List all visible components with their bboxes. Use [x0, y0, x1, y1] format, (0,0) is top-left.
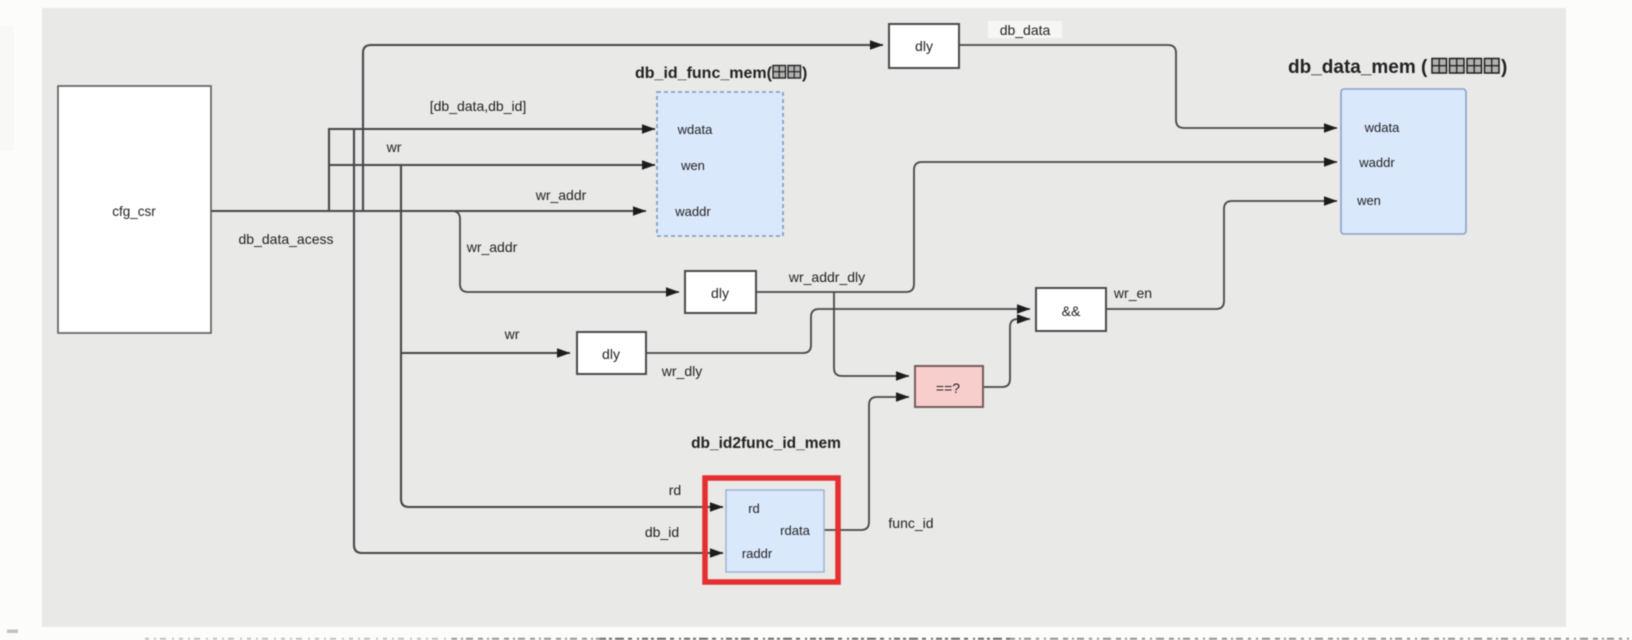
svg-text:db_data: db_data: [1000, 22, 1051, 38]
svg-text:cfg_csr: cfg_csr: [112, 204, 156, 219]
svg-text:wdata: wdata: [677, 122, 713, 137]
svg-text:): ): [1501, 57, 1507, 78]
svg-text:dly: dly: [711, 285, 729, 301]
svg-text:): ): [802, 65, 807, 82]
svg-text:wr_en: wr_en: [1113, 285, 1152, 301]
svg-text:db_data_mem (: db_data_mem (: [1288, 57, 1428, 78]
svg-text:func_id: func_id: [888, 515, 933, 531]
svg-text:dly: dly: [915, 38, 933, 54]
svg-text:&&: &&: [1062, 303, 1081, 319]
svg-text:waddr: waddr: [1358, 155, 1395, 170]
svg-text:rd: rd: [669, 482, 681, 498]
svg-text:db_id_func_mem(: db_id_func_mem(: [635, 65, 773, 82]
svg-text:wdata: wdata: [1364, 120, 1400, 135]
svg-text:wr_addr: wr_addr: [466, 239, 518, 255]
svg-text:raddr: raddr: [742, 546, 773, 561]
svg-text:dly: dly: [602, 346, 620, 362]
svg-text:==?: ==?: [936, 380, 960, 396]
svg-text:wen: wen: [1356, 193, 1381, 208]
svg-text:db_id2func_id_mem: db_id2func_id_mem: [691, 435, 841, 452]
svg-text:waddr: waddr: [674, 204, 711, 219]
svg-text:wr: wr: [504, 326, 520, 342]
svg-text:rd: rd: [748, 501, 760, 516]
svg-text:wen: wen: [680, 158, 705, 173]
svg-text:wr_dly: wr_dly: [661, 363, 702, 379]
svg-text:wr_addr: wr_addr: [535, 187, 587, 203]
svg-text:rdata: rdata: [780, 523, 810, 538]
svg-text:db_id: db_id: [645, 524, 679, 540]
svg-text:[db_data,db_id]: [db_data,db_id]: [430, 98, 527, 114]
svg-text:db_data_acess: db_data_acess: [239, 231, 334, 247]
svg-text:wr_addr_dly: wr_addr_dly: [788, 269, 865, 285]
svg-text:wr: wr: [386, 139, 402, 155]
